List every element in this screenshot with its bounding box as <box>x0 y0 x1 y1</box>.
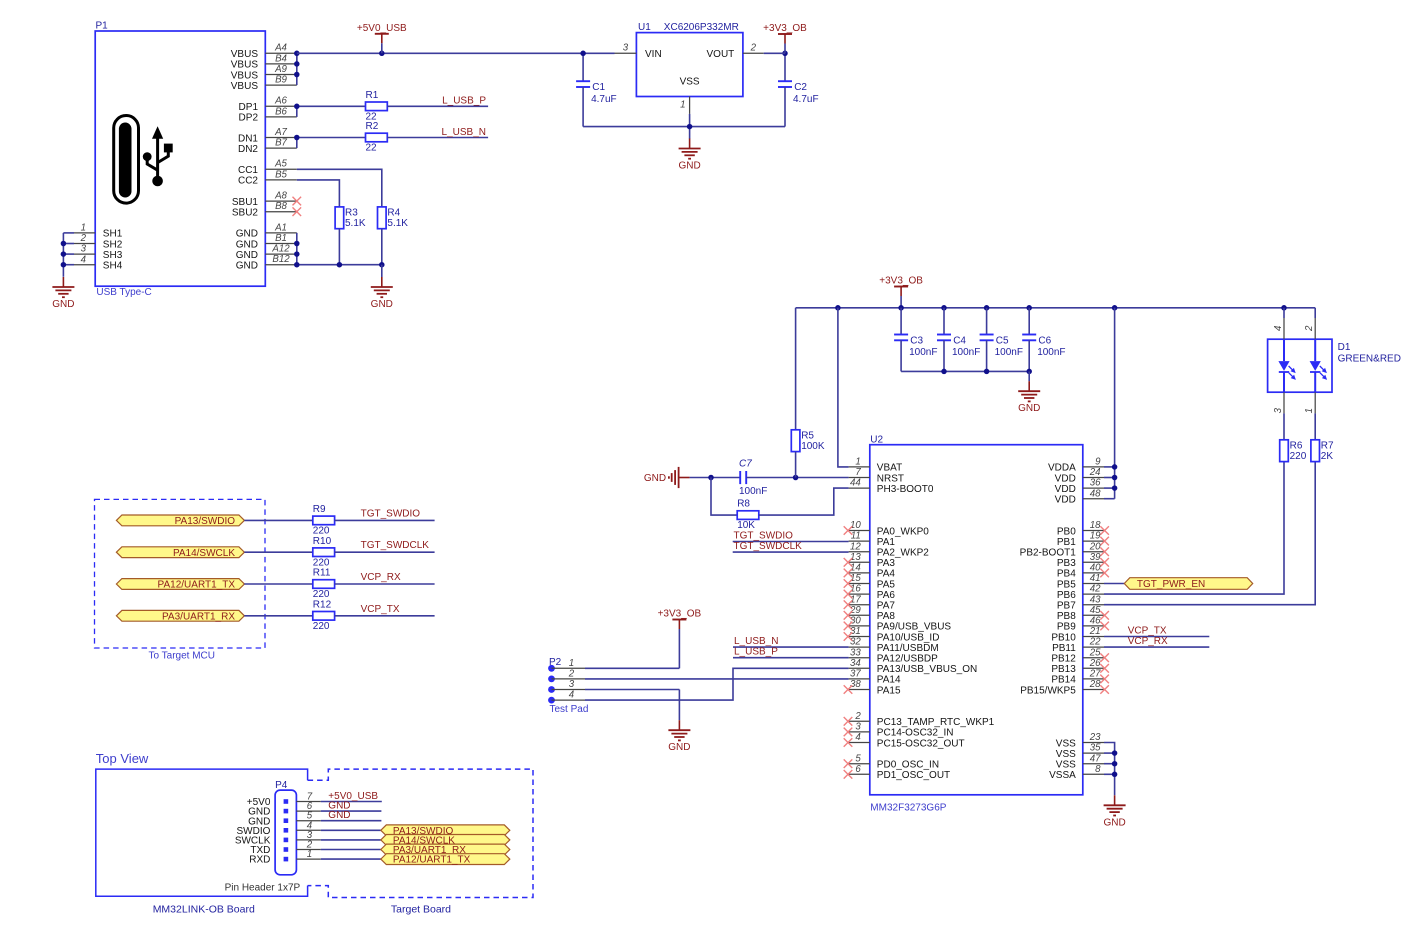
svg-text:2: 2 <box>568 668 575 679</box>
P1 pin A9 VBUS <box>231 64 297 81</box>
junction rail VDD <box>1112 305 1118 311</box>
junction R8 tap <box>708 475 714 481</box>
svg-text:A6: A6 <box>274 96 287 107</box>
board outline MM32LINK-OB (solid) <box>96 769 308 915</box>
P4 pin 1 RXD <box>249 849 321 866</box>
wire R8 to PH3-BOOT0 <box>759 488 849 515</box>
wire TGT_SWDIO to PA1 <box>733 541 849 543</box>
svg-text:A4: A4 <box>274 43 287 54</box>
U2 pin 15 PA5 <box>844 573 896 590</box>
svg-text:RXD: RXD <box>249 855 270 866</box>
svg-text:5: 5 <box>855 753 861 764</box>
ground at U2 VSS <box>1103 795 1125 828</box>
svg-text:PB3: PB3 <box>1057 558 1076 569</box>
junction GND B1 <box>294 241 300 247</box>
net label TGT_SWDIO <box>361 508 421 519</box>
P4 pin 6 GND <box>248 801 321 818</box>
ground at decoupling caps <box>1018 381 1040 414</box>
ground at CC resistors <box>371 277 393 310</box>
svg-text:1: 1 <box>307 849 312 860</box>
svg-text:PA13/SWDIO: PA13/SWDIO <box>175 516 236 527</box>
svg-text:23: 23 <box>1089 732 1101 743</box>
svg-text:DN2: DN2 <box>238 144 258 155</box>
wire P4 to PA3/UART1_RX <box>321 849 381 851</box>
svg-text:VSS: VSS <box>1056 760 1076 771</box>
svg-text:PH3-BOOT0: PH3-BOOT0 <box>877 484 934 495</box>
svg-text:XC6206P332MR: XC6206P332MR <box>664 22 739 33</box>
U2 pin 34 PA13/USB_VBUS_ON <box>849 658 978 675</box>
svg-text:PC14-OSC32_IN: PC14-OSC32_IN <box>877 728 954 739</box>
capacitor C5 100nF <box>980 308 1023 372</box>
svg-text:100nF: 100nF <box>1037 347 1065 358</box>
svg-text:PB10: PB10 <box>1051 632 1076 643</box>
svg-text:2: 2 <box>854 711 861 722</box>
wire PA13/SWDIO to R9 <box>244 519 312 521</box>
capacitor C4 100nF <box>937 308 980 372</box>
svg-text:B4: B4 <box>275 53 287 64</box>
junction SH2 <box>61 241 67 247</box>
svg-text:29: 29 <box>849 605 861 616</box>
svg-text:2K: 2K <box>1321 451 1334 462</box>
junction DN1 <box>294 135 300 141</box>
U1 pin 3 VIN <box>615 42 662 60</box>
U1 pin 1 VSS <box>680 77 700 114</box>
wire R9 to TGT_SWDIO <box>335 519 435 521</box>
svg-text:R2: R2 <box>366 121 379 132</box>
D1 pin 2 <box>1304 318 1315 339</box>
junction GND A12 <box>294 251 300 257</box>
P1 pin 4 SH4 <box>74 254 123 271</box>
U2 pin 31 PA10/USB_ID <box>844 626 940 643</box>
svg-text:PA15: PA15 <box>877 685 901 696</box>
svg-text:PA3/UART1_RX: PA3/UART1_RX <box>162 611 235 622</box>
wire L_USB_N to PA11 <box>733 646 849 648</box>
svg-text:1: 1 <box>569 658 574 669</box>
wire VDD group to rail <box>1104 308 1115 499</box>
U2 pin 26 PB13 <box>1051 658 1109 675</box>
svg-text:PB13: PB13 <box>1051 664 1076 675</box>
P1 pin 1 SH1 <box>74 223 123 240</box>
svg-text:43: 43 <box>1090 594 1101 605</box>
wire P2 pin4 to PA13 <box>585 668 849 700</box>
resistor R12 220 <box>313 599 335 632</box>
junction C5 gnd <box>984 369 990 375</box>
junction VDD36 <box>1112 485 1118 491</box>
svg-text:PA12/USBDP: PA12/USBDP <box>877 654 938 665</box>
U2 pin 11 PA1 <box>849 531 896 548</box>
P1 pin A4 VBUS <box>231 43 297 60</box>
svg-text:5.1K: 5.1K <box>345 218 366 229</box>
net label L_USB_P at U2 <box>734 647 778 658</box>
LED D1 red element <box>1310 339 1328 392</box>
U2 pin 37 PA14 <box>849 669 901 686</box>
resistor R11 220 <box>313 568 335 601</box>
P1 pin A7 DN1 <box>238 127 297 144</box>
svg-text:A8: A8 <box>274 191 287 202</box>
svg-text:PB14: PB14 <box>1051 675 1076 686</box>
junction VBUS A4 <box>294 51 300 57</box>
junction VDDA <box>1112 464 1118 470</box>
U1 pin 2 VOUT <box>707 42 764 60</box>
svg-text:42: 42 <box>1090 584 1101 595</box>
wire C7 to NRST <box>746 477 848 479</box>
port flag PA12/UART1_TX <box>116 579 244 591</box>
net label TGT_SWDCLK <box>361 540 430 551</box>
svg-text:TGT_SWDIO: TGT_SWDIO <box>734 530 794 541</box>
U2 pin 7 NRST <box>849 467 904 484</box>
svg-text:A5: A5 <box>274 159 287 170</box>
svg-text:To Target MCU: To Target MCU <box>149 650 216 661</box>
wire D1 pin1 to R7 <box>1314 413 1316 439</box>
wire P4 to PA13/SWDIO <box>321 829 381 831</box>
label Top View <box>96 751 149 766</box>
svg-text:R7: R7 <box>1321 441 1334 452</box>
wire rail to D1 pins <box>1284 308 1315 318</box>
svg-text:7: 7 <box>855 467 861 478</box>
junction +5V0_USB stem <box>379 43 385 56</box>
P1 pin A6 DP1 <box>239 96 297 113</box>
svg-text:VSS: VSS <box>680 77 700 88</box>
svg-text:VBUS: VBUS <box>231 70 259 81</box>
svg-text:A9: A9 <box>274 64 287 75</box>
svg-text:U1: U1 <box>638 22 651 33</box>
svg-text:VCP_TX: VCP_TX <box>361 604 400 615</box>
wire GND pins bus <box>297 233 382 265</box>
port flag PA13/SWDIO on target board <box>381 825 510 837</box>
svg-text:SBU2: SBU2 <box>232 208 259 219</box>
svg-text:100nF: 100nF <box>995 347 1023 358</box>
svg-text:VCP_RX: VCP_RX <box>361 572 401 583</box>
capacitor C1 4.7uF <box>576 53 617 126</box>
U2 pin 42 PB6 <box>1057 584 1104 601</box>
U2 pin 18 PB0 <box>1057 520 1109 537</box>
svg-text:VSS: VSS <box>1056 738 1076 749</box>
svg-text:VSS: VSS <box>1056 749 1076 760</box>
wire R2 to L_USB_N <box>387 137 488 139</box>
svg-text:PB2-BOOT1: PB2-BOOT1 <box>1020 548 1077 559</box>
svg-text:R10: R10 <box>313 536 332 547</box>
svg-text:C3: C3 <box>910 335 923 346</box>
P1 pin B5 CC2 <box>238 169 297 186</box>
svg-text:4: 4 <box>81 254 87 265</box>
U2 pin 43 PB7 <box>1057 594 1104 611</box>
svg-text:PA2_WKP2: PA2_WKP2 <box>877 548 929 559</box>
svg-text:GND: GND <box>236 250 258 261</box>
P1 pin B4 VBUS <box>231 53 297 70</box>
svg-text:PB9: PB9 <box>1057 622 1076 633</box>
U2 pin 1 VBAT <box>849 457 903 474</box>
svg-text:34: 34 <box>850 658 861 669</box>
svg-text:SBU1: SBU1 <box>232 197 259 208</box>
U2 pin 22 PB11 <box>1052 637 1104 654</box>
svg-text:PB7: PB7 <box>1057 601 1076 612</box>
svg-text:VSSA: VSSA <box>1049 770 1076 781</box>
resistor R3 5.1K <box>335 207 366 229</box>
capacitor C7 100nF <box>739 459 767 497</box>
svg-text:1: 1 <box>855 457 860 468</box>
U2 pin 39 PB3 <box>1057 552 1109 569</box>
junction VSSA <box>1112 772 1118 778</box>
LED D1 green element <box>1278 339 1296 392</box>
svg-text:GND: GND <box>236 229 258 240</box>
port flag PA14/SWCLK <box>116 547 244 559</box>
svg-text:Target Board: Target Board <box>391 903 451 915</box>
svg-text:R9: R9 <box>313 504 326 515</box>
svg-text:B9: B9 <box>275 75 287 86</box>
svg-text:GND: GND <box>1018 403 1040 414</box>
svg-text:PA6: PA6 <box>877 590 896 601</box>
svg-text:A1: A1 <box>274 222 287 233</box>
wire L_USB_P to PA12 <box>733 657 849 659</box>
junction VSS35 <box>1112 750 1118 756</box>
port flag PA13/SWDIO <box>116 515 244 527</box>
svg-text:PB1: PB1 <box>1057 537 1076 548</box>
svg-text:R8: R8 <box>737 499 750 510</box>
port flag TGT_PWR_EN <box>1104 578 1253 591</box>
wire +5V0_USB net: VBUS to U1 VIN <box>297 52 615 54</box>
wire DN pair to R2 <box>297 138 366 149</box>
svg-text:+3V3_OB: +3V3_OB <box>879 276 923 287</box>
svg-text:DN1: DN1 <box>238 133 258 144</box>
resistor R1 22 <box>366 90 388 123</box>
svg-text:VBUS: VBUS <box>231 81 259 92</box>
svg-text:VDDA: VDDA <box>1048 463 1076 474</box>
U2 pin 17 PA7 <box>844 594 896 611</box>
junction R4 gnd <box>379 262 385 268</box>
junction C2 top <box>782 51 788 57</box>
svg-text:220: 220 <box>1290 451 1307 462</box>
svg-text:PA12/UART1_TX: PA12/UART1_TX <box>158 580 236 591</box>
svg-text:VBUS: VBUS <box>231 60 259 71</box>
svg-text:PD1_OSC_OUT: PD1_OSC_OUT <box>877 770 950 781</box>
wire PB6 to R6 <box>1104 462 1284 594</box>
wire R1 to L_USB_P <box>387 105 488 107</box>
wire R3 bottom <box>338 229 340 265</box>
svg-text:TGT_PWR_EN: TGT_PWR_EN <box>1137 579 1205 590</box>
port flag PA14/SWCLK on target board <box>381 835 510 847</box>
svg-text:1: 1 <box>81 223 86 234</box>
U2 pin 28 PB15/WKP5 <box>1020 679 1109 696</box>
resistor R7 2K <box>1311 440 1334 462</box>
svg-text:100nF: 100nF <box>739 486 767 497</box>
svg-text:PA7: PA7 <box>877 601 896 612</box>
svg-text:32: 32 <box>850 637 861 648</box>
junction rail C6 <box>1026 305 1032 311</box>
svg-text:PB8: PB8 <box>1057 611 1076 622</box>
junction GND B12 <box>294 262 300 268</box>
svg-text:R5: R5 <box>801 431 814 442</box>
svg-text:PA3: PA3 <box>877 558 896 569</box>
svg-text:4: 4 <box>855 732 861 743</box>
svg-text:41: 41 <box>1090 573 1101 584</box>
connector P2 Test Pad <box>549 657 588 715</box>
power port +3V3_OB main <box>879 276 923 308</box>
svg-text:L_USB_P: L_USB_P <box>442 96 486 107</box>
svg-text:CC1: CC1 <box>238 165 258 176</box>
svg-text:1: 1 <box>1304 408 1315 413</box>
svg-text:VBAT: VBAT <box>877 463 902 474</box>
svg-text:PA12/UART1_TX: PA12/UART1_TX <box>393 855 471 866</box>
svg-text:15: 15 <box>850 573 861 584</box>
U2 pin 8 VSSA <box>1049 764 1104 781</box>
power port +3V3_OB at U1 <box>763 23 807 53</box>
svg-text:48: 48 <box>1090 488 1101 499</box>
svg-text:DP1: DP1 <box>239 102 259 113</box>
power port +3V3_OB at P2 <box>658 609 702 639</box>
svg-text:PA5: PA5 <box>877 579 896 590</box>
svg-text:100nF: 100nF <box>952 347 980 358</box>
U2 pin 32 PA11/USBDM <box>849 637 939 654</box>
port flag PA3/UART1_RX <box>116 610 244 622</box>
ground at P1 shield <box>52 277 74 310</box>
svg-text:VIN: VIN <box>645 49 662 60</box>
U2 pin 47 VSS <box>1056 753 1104 770</box>
svg-text:9: 9 <box>1095 457 1101 468</box>
resistor R2 22 <box>366 121 388 154</box>
svg-text:DP2: DP2 <box>239 113 259 124</box>
svg-text:GND: GND <box>1103 817 1125 828</box>
junction C1 top <box>580 51 586 57</box>
resistor R8 10K <box>711 478 759 532</box>
junction VSS47 <box>1112 761 1118 767</box>
power port +5V0_USB <box>357 23 407 43</box>
U2 pin 13 PA3 <box>844 552 896 569</box>
svg-text:PA14/SWCLK: PA14/SWCLK <box>173 548 235 559</box>
svg-text:3: 3 <box>569 679 575 690</box>
junction rail C3 <box>898 305 904 311</box>
svg-text:TGT_SWDCLK: TGT_SWDCLK <box>361 540 430 551</box>
junction VDD24 <box>1112 475 1118 481</box>
svg-text:PA11/USBDM: PA11/USBDM <box>877 643 939 654</box>
wire P2 pin1 to +3V3_OB <box>585 639 679 668</box>
P1 pin B6 DP2 <box>239 106 297 123</box>
svg-text:100K: 100K <box>801 441 825 452</box>
wire VOUT to +3V3_OB <box>764 52 785 54</box>
P1 pin A5 CC1 <box>238 159 297 176</box>
svg-text:R1: R1 <box>366 90 379 101</box>
capacitor C6 100nF <box>1022 308 1065 372</box>
svg-text:CC2: CC2 <box>238 176 258 187</box>
net label GND pin5 <box>328 810 350 821</box>
U2 pin 16 PA6 <box>844 584 896 601</box>
ground at U1 <box>678 139 700 172</box>
svg-text:GND: GND <box>236 239 258 250</box>
junction rail LED <box>1281 305 1287 311</box>
svg-text:18: 18 <box>1090 520 1101 531</box>
svg-text:PA4: PA4 <box>877 569 896 580</box>
svg-text:GND: GND <box>328 810 350 821</box>
U2 pin 20 PB2-BOOT1 <box>1020 541 1109 558</box>
wire R4 bottom <box>381 229 383 265</box>
svg-text:VDD: VDD <box>1055 484 1076 495</box>
svg-text:26: 26 <box>1089 658 1101 669</box>
svg-text:22: 22 <box>1089 637 1101 648</box>
svg-text:PA13/USB_VBUS_ON: PA13/USB_VBUS_ON <box>877 664 977 675</box>
wire DP pair to R1 <box>297 106 366 117</box>
P1 pin B8 SBU2 <box>232 201 301 218</box>
wire to ground <box>381 265 383 277</box>
svg-text:4: 4 <box>569 690 575 701</box>
svg-text:2: 2 <box>80 233 87 244</box>
svg-text:R3: R3 <box>345 208 358 219</box>
junction DP1 <box>294 104 300 110</box>
resistor R5 100K <box>791 308 825 478</box>
wire P4 pin6 GND <box>321 810 382 812</box>
wire +3V3_OB rail <box>796 307 1316 309</box>
svg-text:3: 3 <box>81 244 87 255</box>
junction SH4 <box>61 262 67 268</box>
junction SH3 <box>61 251 67 257</box>
wire P4 to PA14/SWCLK <box>321 839 381 841</box>
svg-text:PA14: PA14 <box>877 675 901 686</box>
net label VCP_RX at U2 <box>1128 636 1168 647</box>
U2 pin 25 PB12 <box>1051 647 1109 664</box>
net label +5V0_USB at P4 <box>328 791 378 802</box>
P1 pin 2 SH2 <box>74 233 123 250</box>
wire C6 to ground <box>1028 371 1030 381</box>
svg-text:TGT_SWDCLK: TGT_SWDCLK <box>734 541 803 552</box>
net label VCP_TX at U2 <box>1128 626 1167 637</box>
U2 pin 36 VDD <box>1055 478 1104 495</box>
svg-text:44: 44 <box>850 478 861 489</box>
U2 pin 33 PA12/USBDP <box>849 647 938 664</box>
U2 pin 3 PC14-OSC32_IN <box>844 722 954 739</box>
junction rail C5 <box>984 305 990 311</box>
wire CC2 to R3 <box>297 180 340 207</box>
svg-text:L_USB_N: L_USB_N <box>442 127 486 138</box>
svg-text:SH4: SH4 <box>103 261 123 272</box>
svg-text:11: 11 <box>851 531 861 542</box>
svg-text:+3V3_OB: +3V3_OB <box>763 23 807 34</box>
P2 pin 2 <box>548 668 585 682</box>
wire decoupling gnd rail <box>901 370 1029 372</box>
svg-text:PB0: PB0 <box>1057 526 1076 537</box>
connector P1 body (USB Type-C) <box>95 21 265 298</box>
svg-text:R4: R4 <box>387 208 400 219</box>
svg-text:B12: B12 <box>272 254 290 265</box>
svg-text:GND: GND <box>644 473 666 484</box>
U2 pin 40 PB4 <box>1057 563 1109 580</box>
svg-text:NRST: NRST <box>877 473 904 484</box>
U2 pin 45 PB8 <box>1057 605 1109 622</box>
wire VBAT to rail <box>838 308 849 467</box>
junction C4 gnd <box>941 369 947 375</box>
P1 pin B12 GND <box>236 254 297 271</box>
svg-text:PB12: PB12 <box>1051 654 1076 665</box>
svg-text:VOUT: VOUT <box>707 49 735 60</box>
svg-text:PB4: PB4 <box>1057 569 1076 580</box>
svg-text:GND: GND <box>236 261 258 272</box>
svg-text:PA10/USB_ID: PA10/USB_ID <box>877 632 940 643</box>
U2 pin 21 PB10 <box>1051 626 1104 643</box>
U2 pin 29 PA8 <box>844 605 896 622</box>
svg-text:8: 8 <box>1095 764 1101 775</box>
svg-text:C5: C5 <box>996 335 1009 346</box>
svg-text:PA8: PA8 <box>877 611 896 622</box>
svg-text:19: 19 <box>1090 531 1101 542</box>
svg-text:VDD: VDD <box>1055 473 1076 484</box>
U2 pin 24 VDD <box>1055 467 1104 484</box>
svg-text:PB11: PB11 <box>1052 643 1076 654</box>
P4 pin 3 SWCLK <box>235 830 321 847</box>
svg-text:R6: R6 <box>1290 441 1303 452</box>
svg-text:R12: R12 <box>313 599 332 610</box>
U2 pin 9 VDDA <box>1048 457 1104 474</box>
junction R3 gnd <box>337 262 343 268</box>
U2 pin 4 PC15-OSC32_OUT <box>844 732 965 749</box>
svg-text:VDD: VDD <box>1055 495 1076 506</box>
svg-text:27: 27 <box>1089 669 1101 680</box>
